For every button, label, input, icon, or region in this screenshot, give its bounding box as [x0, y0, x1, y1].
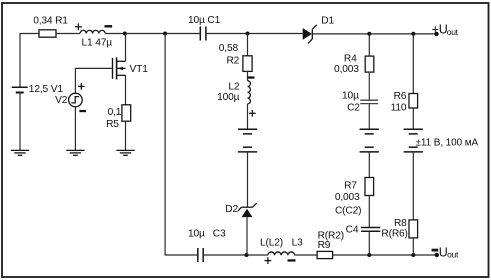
- svg-text:10µ C1: 10µ C1: [188, 15, 221, 26]
- wire battery to R8: [412, 152, 414, 220]
- resistor R8: [381, 218, 417, 239]
- svg-text:L3: L3: [292, 237, 304, 248]
- wire R1 to L1: [56, 33, 80, 35]
- svg-text:D1: D1: [321, 15, 334, 26]
- svg-text:R9: R9: [318, 240, 331, 251]
- svg-text:0,34 R1: 0,34 R1: [33, 16, 68, 27]
- minus mark L3: [288, 259, 296, 261]
- node R4 junction top: [367, 32, 371, 36]
- wire C1 to D1: [206, 33, 303, 35]
- svg-text:110: 110: [391, 102, 407, 113]
- wire C4 to bottom rail: [368, 231, 370, 255]
- wire R4 to C2: [368, 72, 370, 100]
- wire R2 to L2: [247, 71, 249, 80]
- svg-text:C4: C4: [346, 225, 359, 236]
- wire top rail left: battery V1 top to R1: [20, 34, 39, 88]
- diode D2: [225, 203, 256, 217]
- inductor L3: [260, 237, 303, 255]
- label output rating: [416, 138, 479, 149]
- wire top to R6: [412, 34, 414, 94]
- ground R5: [116, 150, 134, 155]
- plus mark L2: [249, 110, 256, 117]
- wire R8 to bottom rail: [412, 238, 414, 255]
- wire R2 top: [247, 34, 249, 56]
- wire top to R4: [368, 34, 370, 56]
- wire D2 to bottom rail: [246, 217, 248, 255]
- ground V2: [66, 150, 84, 155]
- svg-text:10µ: 10µ: [342, 90, 359, 101]
- wire R7 to C4: [368, 196, 370, 228]
- inductor L1: [80, 30, 112, 48]
- svg-text:out: out: [447, 27, 459, 37]
- plus mark L1: [75, 23, 82, 30]
- svg-text:0,1: 0,1: [108, 107, 122, 118]
- inductor L2: [217, 81, 250, 104]
- wire D1 to +Uout: [312, 33, 434, 35]
- svg-text:V2: V2: [55, 95, 68, 106]
- capacitor C4: [335, 206, 380, 236]
- battery symbol R6 column: [404, 129, 423, 152]
- terminal +Uout: [432, 22, 459, 37]
- wire V2 to gate: [75, 68, 112, 93]
- capacitor C3: [188, 229, 226, 262]
- svg-text:out: out: [447, 250, 459, 260]
- wire source to R5: [125, 75, 127, 105]
- diode D1: [303, 15, 335, 43]
- svg-text:C(C2): C(C2): [335, 206, 361, 217]
- capacitor C2: [342, 90, 378, 113]
- svg-text:C2: C2: [347, 102, 360, 113]
- svg-text:+U: +U: [432, 22, 448, 36]
- wire drain: [125, 34, 127, 62]
- node R6 junction top: [411, 32, 415, 36]
- resistor R5: [106, 105, 131, 130]
- svg-text:R2: R2: [226, 55, 239, 66]
- node drain junction: [123, 32, 127, 36]
- resistor R7: [335, 178, 374, 204]
- wire V2 to ground: [74, 107, 76, 150]
- svg-text:R7: R7: [344, 180, 357, 191]
- svg-text:±11 В, 100 мА: ±11 В, 100 мА: [416, 138, 479, 149]
- battery symbol middle column: [238, 129, 257, 152]
- svg-text:0,003: 0,003: [335, 192, 360, 203]
- resistor R2: [219, 43, 252, 72]
- plus mark V2: [78, 83, 85, 90]
- svg-text:10µ C3: 10µ C3: [188, 229, 226, 240]
- node R7 junction bottom: [367, 253, 371, 257]
- wire L3 to R9: [295, 254, 318, 256]
- resistor R1: [33, 16, 68, 38]
- wire C3 to L3: [203, 254, 268, 256]
- svg-text:L(L2): L(L2): [260, 237, 283, 248]
- node C3 loop junction: [163, 32, 167, 36]
- svg-text:R(R6): R(R6): [381, 228, 407, 239]
- ground V1: [11, 150, 29, 155]
- wire V1 to ground: [19, 93, 21, 151]
- svg-text:0,58: 0,58: [219, 43, 239, 54]
- wire battery to D2: [247, 152, 249, 207]
- plus mark L3: [265, 257, 272, 264]
- wire C3 loop: [165, 34, 198, 256]
- resistor R4: [334, 54, 374, 75]
- wire C2 to battery: [368, 104, 370, 130]
- svg-text:0,003: 0,003: [334, 64, 359, 75]
- minus mark V2: [79, 110, 86, 112]
- battery symbol C2 column: [360, 129, 379, 152]
- svg-text:VT1: VT1: [130, 64, 149, 75]
- wire R9 to -Uout: [333, 254, 435, 256]
- svg-text:12,5 V1: 12,5 V1: [29, 84, 64, 95]
- wire L1 to C1: [105, 33, 200, 35]
- svg-text:100µ: 100µ: [217, 92, 240, 103]
- svg-text:R6: R6: [394, 91, 407, 102]
- svg-text:L1 47µ: L1 47µ: [82, 38, 113, 49]
- wire battery to R7: [368, 152, 370, 178]
- minus mark L1: [105, 25, 113, 27]
- wire R6 to battery: [412, 108, 414, 129]
- resistor R9: [317, 231, 344, 259]
- svg-text:R5: R5: [106, 119, 119, 130]
- svg-text:D2: D2: [225, 204, 238, 215]
- terminal -Uout: [432, 246, 459, 260]
- capacitor C1: [188, 15, 221, 40]
- transistor VT1: [113, 57, 149, 79]
- wire R5 to ground: [125, 121, 127, 150]
- node R8 junction bottom: [411, 253, 415, 257]
- source V2: [55, 93, 82, 107]
- battery V1: [12, 84, 64, 95]
- minus mark L2: [248, 76, 255, 78]
- resistor R6: [391, 91, 418, 113]
- node R2 junction top: [246, 32, 250, 36]
- wire L2 to battery mid: [247, 104, 249, 129]
- node D2 junction bottom: [245, 253, 249, 257]
